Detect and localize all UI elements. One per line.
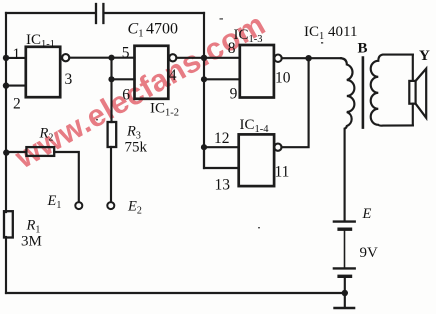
node outputs join — [305, 55, 311, 61]
transformer B primary winding — [341, 58, 354, 220]
resistor R2 body — [26, 147, 54, 156]
wire IC1-1 out to node — [69, 57, 111, 59]
svg-text:3M: 3M — [21, 234, 42, 250]
IC1-3 output bubble — [274, 55, 281, 62]
resistor R1 body — [4, 211, 13, 237]
wire IC1-4 out up to node — [282, 58, 309, 147]
resistor R3 body — [108, 122, 117, 147]
wire R2 to E1 — [54, 152, 79, 202]
node at IC1-2 inputs — [110, 58, 112, 122]
IC1-4 gate body — [239, 134, 274, 186]
node rail pin8 — [201, 55, 207, 61]
svg-text:Y: Y — [419, 48, 430, 64]
svg-text:E: E — [362, 206, 372, 222]
svg-text:4700: 4700 — [146, 20, 178, 37]
wire top rail right segment — [105, 12, 205, 14]
svg-text:1: 1 — [13, 46, 21, 63]
svg-text:6: 6 — [122, 87, 130, 104]
svg-text:2: 2 — [13, 96, 21, 113]
node pin1 — [3, 55, 9, 61]
IC1-1 output bubble — [62, 54, 69, 61]
op-amp U1: IC1-1 gate body — [26, 47, 60, 97]
svg-text:12: 12 — [214, 130, 230, 147]
IC1-2 gate body — [135, 46, 169, 99]
terminal E1 — [75, 202, 82, 209]
node battery bottom — [342, 290, 348, 296]
wire IC1-2 pin6 — [112, 78, 135, 80]
node rail pin9 — [201, 76, 207, 82]
battery E plates — [334, 220, 355, 222]
wire speaker top lead — [412, 55, 414, 81]
wire battery middle — [344, 231, 346, 267]
wire top rail left segment — [6, 12, 95, 14]
node pin2 — [3, 82, 9, 88]
terminal E2 — [107, 202, 114, 209]
wire IC1-2 pin5 — [112, 57, 135, 59]
wire IC1-1 pin1 — [6, 57, 26, 59]
wire IC1-2 out to rail — [177, 57, 205, 59]
wire speaker bottom lead — [412, 104, 414, 126]
svg-text:5: 5 — [122, 44, 130, 61]
wire rail to R2 — [6, 151, 26, 153]
wire battery to bottom rail — [344, 278, 346, 307]
svg-text:B: B — [358, 41, 368, 57]
speaker Y body — [409, 81, 415, 104]
wire R3 to E2 — [110, 147, 112, 202]
svg-text:10: 10 — [275, 70, 291, 87]
svg-text:9V: 9V — [360, 245, 379, 261]
node IC1-2 in bottom — [108, 76, 114, 82]
svg-text:E2: E2 — [127, 199, 142, 217]
svg-text:3: 3 — [65, 71, 73, 88]
wire IC1-3 out to transformer — [282, 57, 341, 59]
node rail pin12 — [201, 144, 207, 150]
wire right feedback rail — [203, 13, 205, 168]
wire bottom rail — [6, 292, 345, 294]
svg-text:11: 11 — [275, 164, 290, 181]
wire IC1-1 pin2 — [6, 85, 26, 87]
svg-text:13: 13 — [215, 177, 231, 194]
node IC1-2 in top — [108, 55, 114, 61]
wire IC1-4 pin12 — [204, 146, 239, 148]
wire IC1-4 pin13 — [204, 147, 239, 168]
svg-text:8: 8 — [228, 40, 236, 57]
speaker cone — [416, 69, 427, 118]
scan specks — [96, 18, 323, 228]
svg-text:4: 4 — [169, 67, 177, 84]
svg-text:IC1 4011: IC1 4011 — [304, 24, 357, 42]
svg-text:IC1-4: IC1-4 — [240, 117, 270, 135]
svg-text:9: 9 — [230, 85, 238, 102]
capacitor C1 — [96, 4, 103, 23]
svg-text:E1: E1 — [47, 193, 62, 211]
wire IC1-3 pin8 — [204, 57, 240, 59]
wire left rail lower — [5, 237, 7, 293]
wire IC1-3 pin9 — [204, 78, 240, 80]
IC1-4 output bubble — [274, 144, 281, 151]
node R2 tap — [3, 149, 9, 155]
svg-text:IC1-2: IC1-2 — [150, 101, 179, 119]
svg-text:IC1-1: IC1-1 — [26, 32, 55, 50]
svg-text:C1: C1 — [128, 20, 144, 39]
svg-text:75k: 75k — [125, 140, 148, 156]
IC1-3 gate body — [240, 45, 274, 98]
IC1-2 output bubble — [169, 54, 176, 61]
watermark www.elecfans.com — [8, 6, 271, 175]
wire left rail — [5, 13, 7, 212]
battery bottom terminal bar — [335, 307, 354, 310]
transformer B secondary winding — [371, 55, 413, 126]
transformer core — [362, 58, 365, 128]
